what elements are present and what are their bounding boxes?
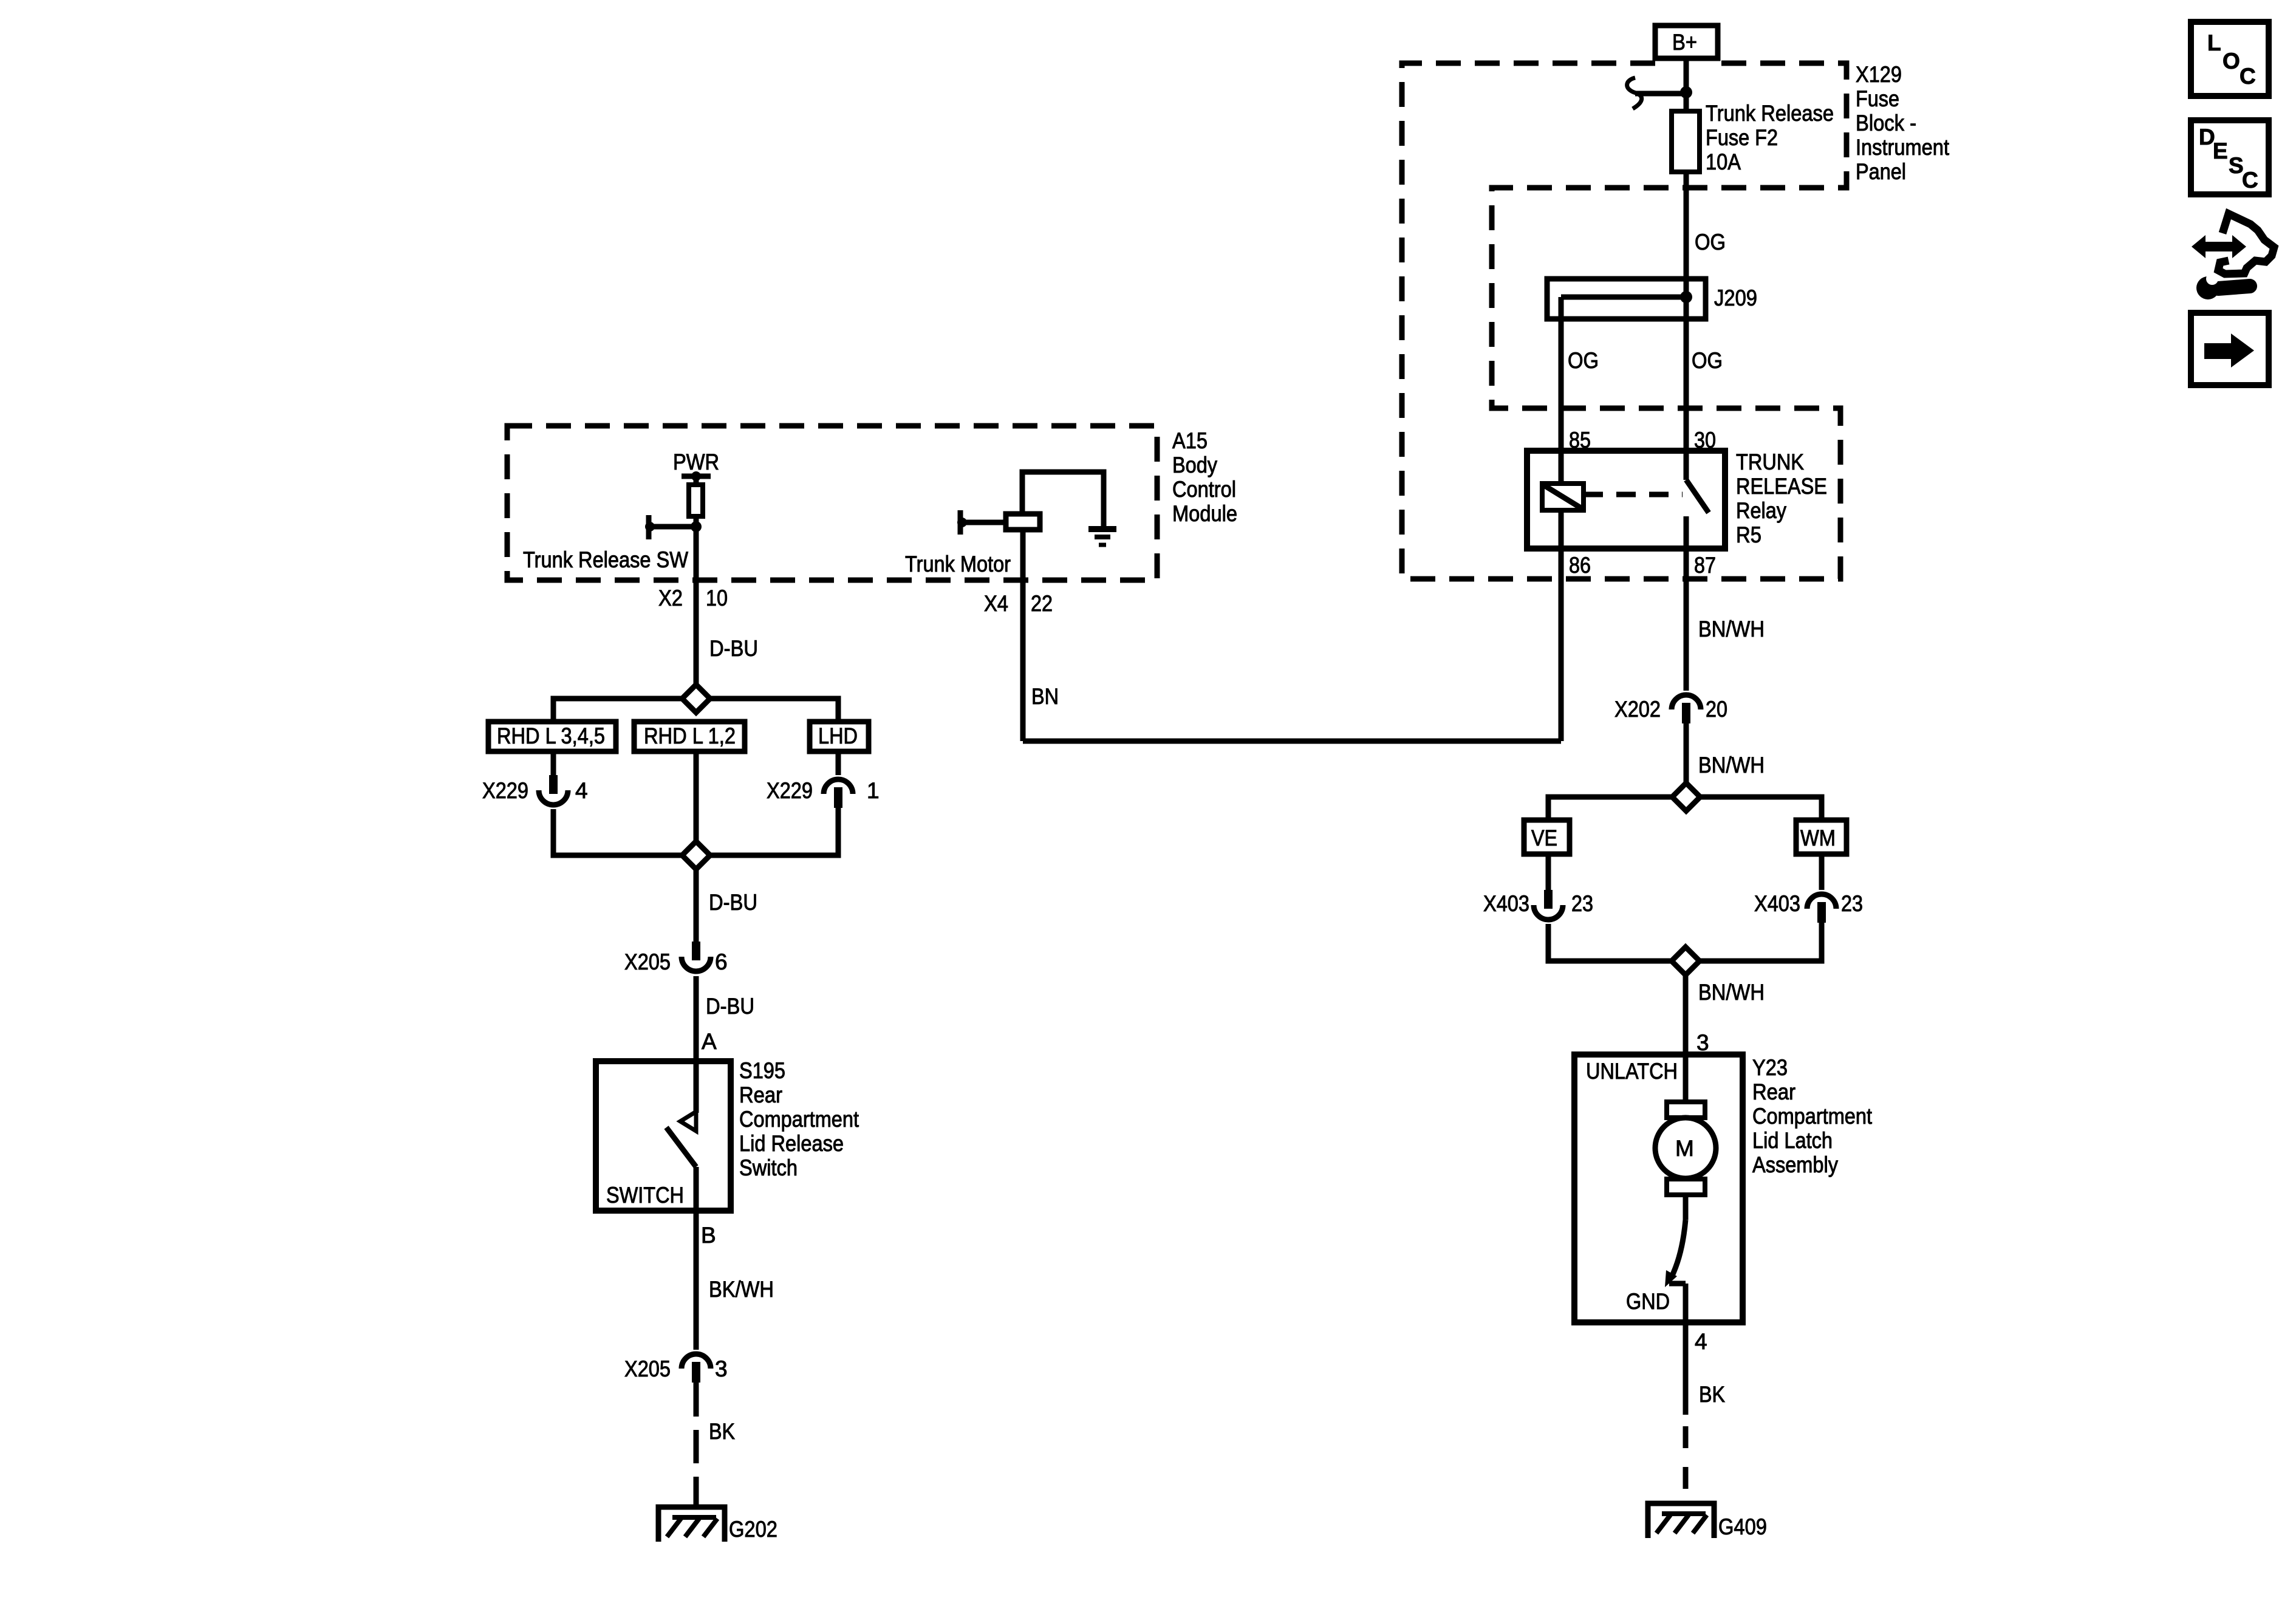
trunk motor contact bar: [958, 510, 963, 535]
splice diamond BN/WH upper: [1672, 783, 1700, 811]
connector X229 pin 1: [824, 779, 853, 794]
relay coil: [1542, 484, 1584, 510]
wire BK dashed to G202: [694, 1430, 699, 1509]
wire splice to LHD: [710, 699, 838, 722]
svg-text:WM: WM: [1800, 826, 1836, 850]
svg-text:Relay: Relay: [1736, 498, 1786, 523]
connector X205 pin 6: [692, 942, 700, 960]
wire splice to VE branch: [1548, 797, 1672, 820]
svg-text:S: S: [2229, 153, 2244, 178]
BCM PWR output terminal: [682, 474, 711, 479]
wire RHD L 3,4,5 to X229 pin 4: [551, 751, 556, 775]
VE option box: [1524, 820, 1570, 854]
svg-text:UNLATCH: UNLATCH: [1586, 1059, 1678, 1084]
connector X229 pin 4: [549, 775, 558, 794]
svg-text:X229: X229: [482, 778, 528, 803]
svg-text:20: 20: [1706, 697, 1727, 722]
svg-text:6: 6: [715, 949, 728, 974]
svg-text:S195: S195: [739, 1058, 785, 1083]
svg-text:Y23: Y23: [1752, 1055, 1788, 1080]
latch motor M: [1667, 1102, 1705, 1118]
svg-text:RHD L 3,4,5: RHD L 3,4,5: [497, 723, 605, 748]
wire X202 to splice diamond: [1684, 721, 1689, 783]
svg-text:Lid Latch: Lid Latch: [1752, 1128, 1833, 1153]
svg-text:C: C: [2240, 64, 2256, 89]
wire BN horizontal run to BCM trunk motor: [1023, 739, 1561, 744]
splice diamond D-BU lower: [682, 841, 710, 869]
svg-text:Fuse F2: Fuse F2: [1706, 125, 1778, 150]
junction dot at fuse tap: [1680, 86, 1692, 98]
wire X229 right to lower splice: [710, 803, 838, 855]
junction dot PWR branch: [691, 521, 702, 532]
fuse hook symbol: [1627, 78, 1642, 109]
svg-text:X205: X205: [624, 1356, 671, 1381]
svg-text:OG: OG: [1692, 348, 1723, 373]
wire relay pin 87 to X202 (BN/WH): [1684, 516, 1689, 691]
wire X403 right to lower splice: [1700, 920, 1822, 961]
relay R5 box: [1527, 451, 1725, 549]
wire J209 branch to relay pin 85 (OG): [1559, 297, 1564, 484]
wire B+ to relay pin 30 (through fuse and J209): [1684, 58, 1689, 451]
wire BCM driver contact horizontal: [649, 524, 696, 530]
junction dot J209: [1680, 291, 1692, 303]
connector X403 right pin 23: [1807, 894, 1836, 909]
connector X202 pin 20: [1672, 695, 1701, 709]
wire splice to WM branch: [1700, 797, 1822, 820]
wire BCM PWR to resistor: [694, 476, 699, 485]
svg-text:B+: B+: [1672, 30, 1697, 55]
ground G202: [658, 1507, 725, 1542]
wire LHD to X229 pin 1: [836, 751, 841, 775]
svg-text:Trunk Release: Trunk Release: [1706, 101, 1834, 126]
ground G409: [1648, 1503, 1714, 1538]
svg-text:Compartment: Compartment: [739, 1107, 859, 1132]
wire X205 to S195 switch contact A: [694, 976, 699, 1113]
svg-text:Block -: Block -: [1856, 111, 1916, 135]
svg-text:G202: G202: [729, 1517, 777, 1542]
wire resistor to X2 pin 10 and splice diamond (D-BU): [694, 516, 699, 685]
svg-text:Trunk Motor: Trunk Motor: [905, 552, 1011, 576]
svg-text:X129: X129: [1856, 62, 1902, 87]
svg-text:23: 23: [1841, 891, 1863, 916]
svg-text:PWR: PWR: [673, 450, 719, 474]
svg-text:Rear: Rear: [1752, 1079, 1795, 1104]
wire BCM trunk motor driver loop: [1022, 472, 1104, 527]
svg-text:30: 30: [1694, 428, 1716, 453]
wire S195 switch to X205 pin 3 (BK/WH): [694, 1167, 699, 1350]
svg-text:22: 22: [1031, 591, 1053, 616]
svg-text:TRUNK: TRUNK: [1736, 450, 1804, 474]
svg-text:B: B: [701, 1223, 716, 1248]
wire BK dashed to G409: [1683, 1426, 1689, 1508]
wire Y23 GND pin 4 down: [1683, 1284, 1689, 1415]
svg-text:D-BU: D-BU: [709, 636, 758, 661]
LHD option box: [810, 722, 869, 751]
svg-text:BN: BN: [1031, 684, 1059, 709]
wire trunk motor contact horizontal: [960, 520, 1006, 525]
svg-text:Compartment: Compartment: [1752, 1104, 1873, 1129]
wire WM box to X403 right: [1819, 854, 1825, 890]
svg-text:O: O: [2223, 49, 2240, 73]
svg-text:BN/WH: BN/WH: [1698, 980, 1765, 1005]
svg-text:Switch: Switch: [739, 1155, 798, 1180]
svg-text:BN/WH: BN/WH: [1698, 617, 1765, 641]
BCM resistor element: [689, 485, 703, 516]
J209 splice bus: [1561, 295, 1686, 300]
svg-text:G409: G409: [1718, 1514, 1767, 1539]
wire splice to RHD L 1,2: [694, 685, 699, 713]
icon LOC box: [2191, 22, 2269, 96]
svg-text:85: 85: [1569, 428, 1591, 453]
icon forward arrow box: [2191, 313, 2269, 385]
svg-text:A15: A15: [1172, 428, 1208, 453]
svg-text:4: 4: [575, 778, 588, 803]
fuse block X129 dashed outline (incl. relay cavity): [1402, 63, 1847, 579]
wire VE box to X403 left: [1546, 854, 1551, 890]
icon DESC box: [2191, 120, 2269, 194]
svg-text:1: 1: [867, 778, 880, 803]
svg-text:X2: X2: [658, 586, 683, 610]
wire splice to RHD L 3,4,5: [553, 699, 682, 722]
svg-text:Rear: Rear: [739, 1082, 782, 1107]
icon component locator (arrows and wrench): [2192, 235, 2246, 258]
RHD L 3,4,5 option box: [488, 722, 616, 751]
svg-text:X202: X202: [1614, 697, 1661, 722]
wire lower splice to Y23 pin 3 (BN/WH): [1683, 975, 1689, 1102]
fuse F2 10A: [1672, 111, 1700, 172]
svg-text:R5: R5: [1736, 522, 1761, 547]
wire RHD L 1,2 down to lower splice: [694, 751, 699, 841]
svg-text:SWITCH: SWITCH: [606, 1183, 684, 1208]
svg-text:Lid Release: Lid Release: [739, 1131, 844, 1156]
svg-text:BK: BK: [709, 1419, 735, 1444]
svg-text:RELEASE: RELEASE: [1736, 474, 1827, 499]
svg-text:X403: X403: [1483, 891, 1529, 916]
svg-text:LHD: LHD: [818, 723, 858, 748]
svg-text:X4: X4: [984, 591, 1008, 616]
svg-text:C: C: [2242, 168, 2258, 193]
splice diamond D-BU upper: [682, 685, 710, 713]
svg-text:Trunk Release SW: Trunk Release SW: [523, 547, 688, 572]
svg-text:Fuse: Fuse: [1856, 86, 1899, 111]
svg-text:Assembly: Assembly: [1752, 1152, 1838, 1177]
svg-text:OG: OG: [1568, 348, 1599, 373]
S195 switch contact arrowhead: [680, 1112, 696, 1131]
svg-text:Module: Module: [1172, 501, 1237, 526]
svg-text:3: 3: [715, 1356, 728, 1381]
svg-text:BN/WH: BN/WH: [1698, 753, 1765, 778]
BCM internal ground: [1088, 526, 1116, 532]
rear compartment lid latch assembly Y23 box: [1574, 1055, 1743, 1322]
svg-text:E: E: [2213, 138, 2228, 163]
connector X205 pin 3: [682, 1354, 711, 1369]
BCM trunk motor driver element: [1006, 514, 1040, 530]
svg-text:10: 10: [706, 586, 728, 610]
svg-text:10A: 10A: [1706, 149, 1741, 174]
svg-text:3: 3: [1696, 1030, 1709, 1055]
svg-text:VE: VE: [1531, 826, 1557, 850]
S195 switch blade: [666, 1127, 696, 1167]
relay switch blade 30-87: [1684, 451, 1689, 480]
svg-text:4: 4: [1695, 1329, 1707, 1354]
svg-text:L: L: [2207, 30, 2221, 55]
svg-text:BK: BK: [1699, 1382, 1725, 1407]
BCM driver contact bar: [646, 515, 652, 539]
WM option box: [1796, 820, 1847, 854]
wire X205 pin 3 down: [694, 1380, 699, 1417]
svg-text:23: 23: [1571, 891, 1593, 916]
svg-text:M: M: [1675, 1136, 1694, 1161]
svg-text:BK/WH: BK/WH: [709, 1277, 774, 1302]
svg-text:GND: GND: [1626, 1289, 1670, 1314]
svg-text:87: 87: [1694, 553, 1716, 578]
svg-text:X205: X205: [624, 949, 671, 974]
svg-text:A: A: [702, 1029, 717, 1054]
svg-text:J209: J209: [1714, 285, 1757, 310]
svg-text:D-BU: D-BU: [706, 994, 754, 1019]
rear compartment lid release switch S195 box: [596, 1061, 731, 1211]
splice pack J209: [1547, 279, 1706, 319]
svg-text:Instrument: Instrument: [1856, 135, 1950, 160]
wire BN vertical from BCM X4 pin 22: [1020, 530, 1026, 741]
splice diamond BN/WH lower: [1672, 947, 1700, 975]
battery feed B+: [1655, 26, 1718, 58]
wire relay coil pin 86 down: [1559, 510, 1564, 741]
wire lower splice to X205 pin 6 (D-BU): [694, 869, 699, 942]
svg-text:Body: Body: [1172, 453, 1217, 477]
svg-text:D-BU: D-BU: [709, 890, 757, 915]
connector X403 left pin 23: [1544, 890, 1553, 909]
wire X403 left to lower splice: [1548, 924, 1672, 961]
svg-text:RHD L 1,2: RHD L 1,2: [644, 723, 736, 748]
svg-text:X403: X403: [1754, 891, 1800, 916]
svg-text:Control: Control: [1172, 477, 1236, 502]
latch ground switch blade with arrow: [1672, 1220, 1686, 1277]
RHD L 1,2 option box: [634, 722, 745, 751]
svg-text:Panel: Panel: [1856, 159, 1906, 184]
body control module A15 dashed outline: [507, 426, 1157, 580]
wire motor to latch switch in Y23: [1683, 1195, 1689, 1220]
svg-text:86: 86: [1569, 553, 1591, 578]
wire X229 left to lower splice: [553, 809, 682, 855]
relay link dashed: [1584, 492, 1683, 497]
svg-text:OG: OG: [1695, 230, 1726, 255]
svg-text:X229: X229: [767, 778, 813, 803]
